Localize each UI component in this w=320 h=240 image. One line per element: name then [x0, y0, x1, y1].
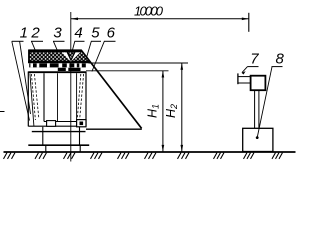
- part label 2: [30, 25, 43, 51]
- V notch in crossarm: [62, 52, 80, 62]
- ground hatching: [4, 153, 283, 159]
- hatched crossarm: [28, 50, 90, 62]
- bracket of item 7: [238, 73, 251, 84]
- svg-text:1: 1: [20, 25, 28, 42]
- dimension H2: [181, 63, 184, 152]
- part label 4: [72, 25, 85, 53]
- pedestal item 8: [243, 128, 273, 151]
- pedestal base: [46, 146, 80, 152]
- axis line of left structure: [70, 12, 72, 162]
- part label 6: [92, 25, 116, 72]
- boom diagonal: [81, 50, 142, 128]
- extension line top of H1: [86, 70, 169, 72]
- svg-text:8: 8: [276, 51, 285, 68]
- svg-text:4: 4: [74, 25, 82, 42]
- svg-text:7: 7: [250, 51, 259, 68]
- stem: [255, 90, 259, 128]
- rail strip below crossarm: [29, 63, 86, 67]
- extension line top of H2: [89, 62, 189, 64]
- part label 7: [242, 51, 260, 75]
- part label 3: [53, 25, 65, 51]
- part label 1: [12, 25, 31, 121]
- part label 5: [87, 25, 101, 58]
- pedestal plate 2: [28, 144, 89, 146]
- ground line: [4, 151, 296, 153]
- machine body: [28, 72, 86, 127]
- right foot: [77, 120, 86, 127]
- svg-text:2: 2: [30, 25, 40, 42]
- svg-text:5: 5: [91, 25, 100, 42]
- head box item 7: [251, 76, 266, 91]
- pedestal plate 1: [32, 131, 86, 133]
- dimension line 10000: [71, 18, 249, 21]
- body inner verticals: [44, 73, 77, 121]
- extension line right (axis of item 7-8): [248, 13, 250, 32]
- boom bottom edge: [86, 128, 142, 130]
- body hidden slants left: [30, 74, 39, 127]
- body hidden slants right: [77, 74, 83, 120]
- dimension H1: [162, 71, 165, 152]
- part label 8: [256, 51, 285, 139]
- pedestal column: [43, 127, 80, 145]
- svg-text:10000: 10000: [134, 4, 164, 19]
- svg-text:6: 6: [107, 25, 116, 42]
- fittings row: [58, 68, 66, 71]
- left foot: [47, 121, 56, 127]
- edge tick left: [0, 111, 5, 113]
- svg-text:3: 3: [53, 25, 62, 42]
